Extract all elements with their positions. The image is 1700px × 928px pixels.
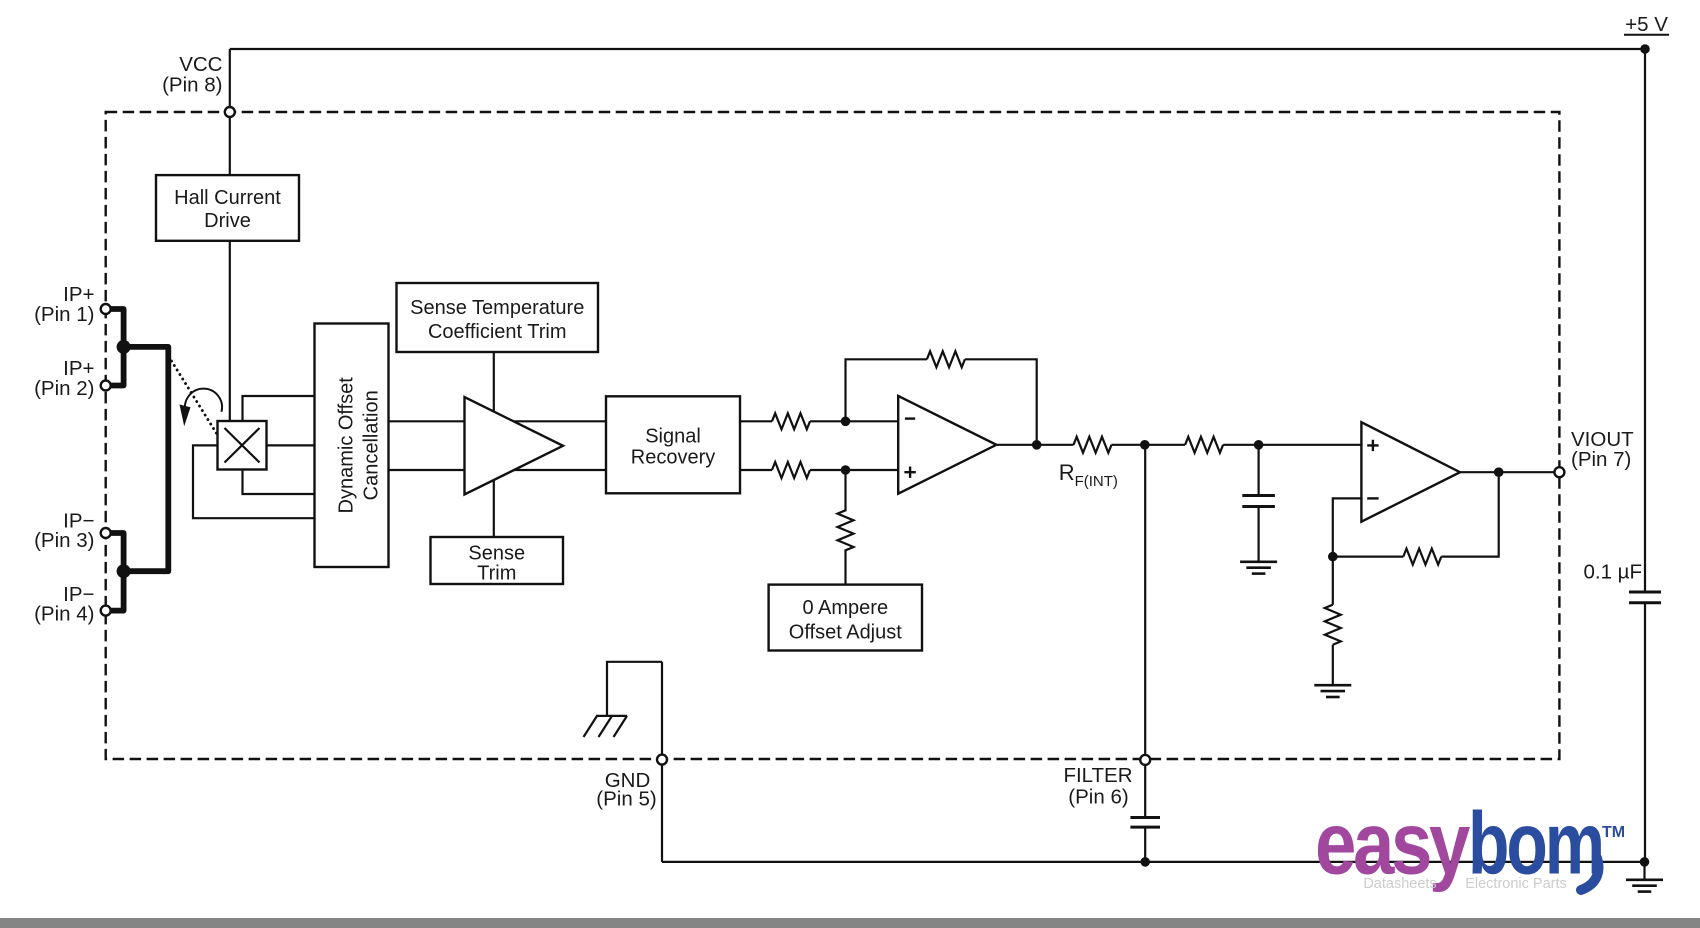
resistor feedback U1 — [927, 351, 965, 367]
wire sense temp trim drop — [493, 352, 495, 537]
wire to op-amp U2 plus — [1223, 444, 1361, 446]
svg-text:Coefficient Trim: Coefficient Trim — [428, 321, 567, 343]
block Sense Trim — [431, 537, 564, 585]
wire +5V right rail lower — [1644, 603, 1646, 862]
svg-text:(Pin 6): (Pin 6) — [1068, 786, 1128, 809]
ground earth internal cap — [1240, 560, 1277, 563]
wire cap branch upper — [1257, 445, 1259, 496]
rotation arc — [185, 389, 222, 412]
ground earth bottom right — [1626, 878, 1663, 881]
pin IP+ (Pin 2) — [101, 381, 111, 391]
wire resistor to op-amp U1 minus — [810, 420, 898, 422]
wire filter node down to FILTER pin — [1144, 445, 1146, 818]
pin FILTER (Pin 6) — [1140, 755, 1150, 765]
wire Hall element bottom to DOC — [243, 470, 315, 495]
svg-text:Sense Temperature: Sense Temperature — [410, 297, 584, 319]
svg-text:Offset Adjust: Offset Adjust — [789, 621, 902, 643]
wire feedback2 left — [1333, 555, 1404, 557]
wire gain resistor branch upper — [1332, 557, 1334, 605]
easybom logo — [1315, 794, 1625, 893]
wire DOC to amp to Signal Recovery bottom — [389, 469, 607, 471]
wire Signal Recovery to op-amp U1 top — [740, 420, 772, 422]
svg-text:+5 V: +5 V — [1625, 13, 1668, 36]
block Dynamic Offset Cancellation — [315, 324, 389, 568]
block Hall Current Drive — [156, 175, 299, 241]
wire cap branch lower — [1257, 507, 1259, 562]
wire IP+ pin1 stub — [106, 309, 124, 347]
pin IP+ (Pin 1) — [101, 304, 111, 314]
wire feedback right-down — [965, 359, 1037, 445]
op-amp U2 — [1361, 422, 1460, 522]
junction +5V top — [1640, 44, 1650, 54]
svg-text:Sense: Sense — [468, 543, 525, 565]
resistor feedback U2 — [1403, 549, 1441, 565]
capacitor filter internal — [1242, 494, 1275, 497]
wire Hall element left wrap to DOC — [193, 445, 315, 518]
svg-text:TM: TM — [1602, 824, 1625, 841]
ground chassis near GND pin — [584, 716, 628, 737]
svg-text:Hall Current: Hall Current — [174, 187, 281, 209]
wire VCC drop to Hall Current Drive — [229, 49, 231, 175]
pin VCC (Pin 8) — [225, 107, 235, 117]
junction supply bottom — [1640, 857, 1650, 867]
junction U2 feedback — [1328, 552, 1338, 562]
wire primary conductor loop — [124, 347, 169, 571]
svg-text:Dynamic Offset: Dynamic Offset — [336, 377, 358, 514]
amplifier A1 — [465, 397, 564, 495]
block Sense Temperature Coefficient Trim — [397, 283, 599, 352]
svg-text:Signal: Signal — [645, 425, 701, 447]
IC boundary dashed box — [106, 112, 1560, 759]
wire Hall element right to DOC — [267, 444, 315, 446]
svg-text:(Pin 5): (Pin 5) — [596, 788, 656, 811]
junction U2 output — [1494, 467, 1504, 477]
wire DOC to amp to Signal Recovery top — [389, 420, 607, 422]
op-amp U1 — [898, 396, 996, 494]
wire IP+ pin2 stub — [106, 347, 124, 386]
junction cap node — [1254, 440, 1264, 450]
bottom gray bar — [0, 918, 1700, 928]
wire +5V right rail upper — [1644, 49, 1646, 592]
junction inverting input — [841, 417, 851, 427]
pin IP- (Pin 3) — [101, 528, 111, 538]
svg-text:(Pin 3): (Pin 3) — [34, 529, 94, 552]
wire op-amp U2 minus — [1333, 498, 1362, 556]
svg-text:(Pin 2): (Pin 2) — [34, 377, 94, 400]
wire RF to filter node — [1112, 444, 1186, 446]
capacitor 0.1uF bypass — [1629, 591, 1661, 594]
junction filter node — [1140, 440, 1150, 450]
svg-text:(Pin 1): (Pin 1) — [34, 303, 94, 326]
wire Hall Current Drive to Hall element — [229, 241, 231, 421]
wire feedback2 right-up — [1441, 472, 1498, 556]
svg-text:Recovery: Recovery — [631, 446, 715, 468]
svg-text:FILTER: FILTER — [1063, 764, 1132, 787]
ground earth U2 gain — [1314, 684, 1351, 687]
resistor to buffer — [1185, 437, 1223, 453]
hall element X — [218, 421, 267, 470]
block 0 Ampere Offset Adjust — [769, 585, 922, 651]
junction IP- — [117, 564, 131, 578]
arc arrowhead — [180, 405, 191, 427]
wire IP- pin4 stub — [106, 571, 124, 610]
svg-text:Datasheets: Datasheets — [1363, 876, 1436, 892]
svg-text:Cancellation: Cancellation — [361, 390, 383, 500]
wire offset branch lower — [844, 549, 846, 584]
svg-text:(Pin 8): (Pin 8) — [162, 74, 222, 97]
junction U1 output — [1032, 440, 1042, 450]
svg-text:Trim: Trim — [477, 563, 516, 585]
svg-text:0 Ampere: 0 Ampere — [802, 597, 888, 619]
resistor offset adjust — [838, 510, 854, 550]
wire op-amp U1 output — [996, 444, 1073, 446]
resistor RF(INT) — [1074, 437, 1112, 453]
wire resistor to op-amp U1 plus — [810, 469, 898, 471]
+5V underline — [1624, 34, 1669, 36]
wire Hall element top-right to DOC — [243, 396, 315, 421]
magnetic coupling dotted arrow — [172, 361, 217, 434]
wire FILTER cap to ground rail — [1144, 827, 1146, 862]
svg-text:Electronic Parts: Electronic Parts — [1465, 876, 1567, 892]
junction IP+ — [117, 340, 131, 354]
wire ground bottom rail — [662, 861, 1645, 863]
wire GND pin riser — [661, 662, 663, 862]
svg-text:(Pin 4): (Pin 4) — [34, 602, 94, 625]
pin GND (Pin 5) — [657, 755, 667, 765]
svg-text:Drive: Drive — [204, 210, 251, 232]
wire +5V top rail — [230, 48, 1645, 50]
resistor input top — [772, 413, 810, 429]
wire feedback up — [846, 359, 927, 421]
capacitor FILTER external — [1130, 816, 1160, 819]
wire Signal Recovery to op-amp U1 bottom — [740, 469, 772, 471]
wire GND stub to chassis — [607, 662, 662, 716]
block Signal Recovery — [606, 396, 740, 493]
junction non-inverting input — [841, 465, 851, 475]
wire op-amp U2 output to VIOUT — [1460, 471, 1559, 473]
resistor U2 gain — [1325, 605, 1341, 645]
pin IP- (Pin 4) — [101, 606, 111, 616]
wire earth stub bottom right — [1643, 862, 1645, 880]
svg-text:(Pin 7): (Pin 7) — [1571, 448, 1631, 471]
junction FILTER ground — [1140, 857, 1150, 867]
pin VIOUT (Pin 7) — [1554, 467, 1564, 477]
wire offset branch upper — [844, 470, 846, 511]
resistor input bottom — [772, 462, 810, 478]
wire gain resistor branch lower — [1332, 645, 1334, 685]
svg-text:0.1 µF: 0.1 µF — [1583, 561, 1642, 584]
wire IP- pin3 stub — [106, 533, 124, 571]
